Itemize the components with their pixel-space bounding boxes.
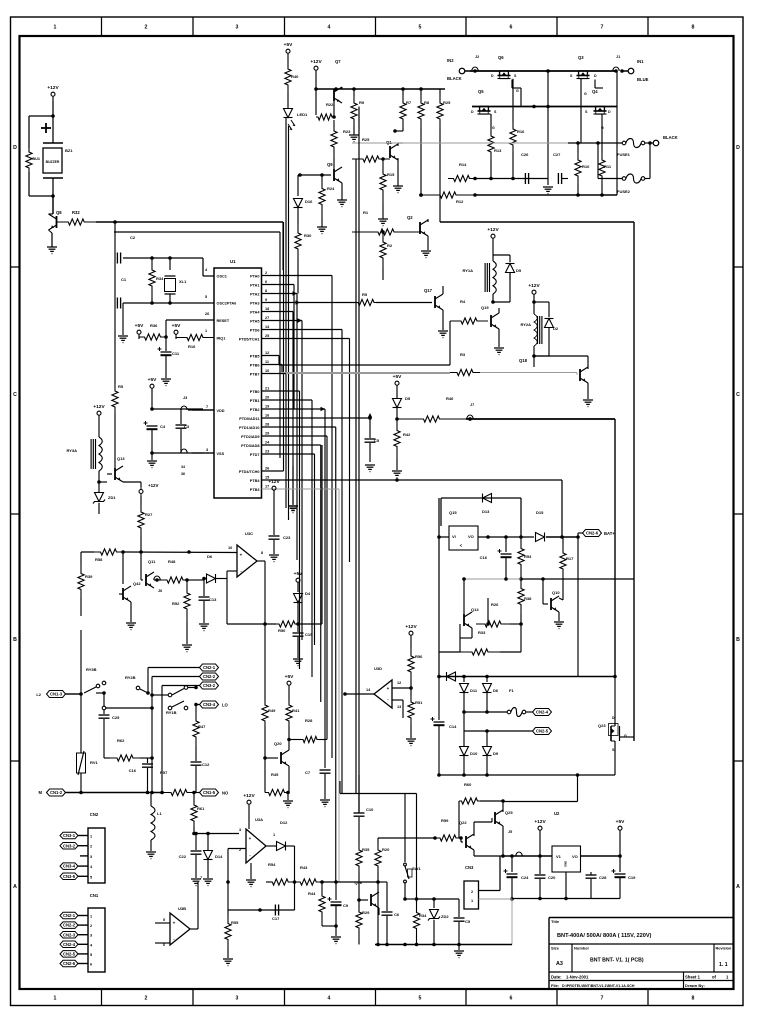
svg-text:D6: D6 xyxy=(493,688,499,693)
svg-text:D11: D11 xyxy=(470,688,478,693)
svg-text:R15: R15 xyxy=(387,172,395,177)
svg-text:2: 2 xyxy=(145,996,148,1002)
svg-text:18: 18 xyxy=(265,307,269,311)
wire reg row xyxy=(439,536,449,538)
ground C13 xyxy=(199,623,209,625)
svg-text:Q5: Q5 xyxy=(478,89,484,94)
svg-text:U3A: U3A xyxy=(255,817,263,822)
ground Q9 e xyxy=(341,183,343,200)
wire +12V rail xyxy=(315,75,317,115)
svg-text:PTA0: PTA0 xyxy=(250,274,259,278)
svg-text:LO: LO xyxy=(222,703,229,708)
wire R60 right xyxy=(503,801,578,803)
fuse row wire xyxy=(568,142,598,144)
svg-text:+5V: +5V xyxy=(148,377,157,383)
svg-text:5: 5 xyxy=(163,918,165,922)
wire y232 top of C2 box xyxy=(114,231,280,233)
svg-text:R34: R34 xyxy=(156,276,164,281)
zone row ticks xyxy=(11,266,20,268)
wire Q11 base xyxy=(141,579,143,581)
svg-text:+12V: +12V xyxy=(310,59,322,65)
svg-text:R14: R14 xyxy=(459,162,467,167)
svg-text:R23: R23 xyxy=(343,129,351,134)
svg-text:23: 23 xyxy=(265,450,269,454)
bus third row xyxy=(475,194,617,196)
svg-text:ZD2: ZD2 xyxy=(441,914,449,919)
ground L1 xyxy=(146,851,156,853)
wire Q13 emitter xyxy=(123,481,141,483)
svg-text:R52: R52 xyxy=(172,601,180,606)
svg-text:L2: L2 xyxy=(36,692,41,697)
svg-text:CN3: CN3 xyxy=(465,865,474,870)
svg-text:3: 3 xyxy=(90,934,92,938)
ground below U1 xyxy=(292,466,294,505)
tag CN2-5 xyxy=(533,728,552,735)
svg-text:Q16: Q16 xyxy=(354,880,362,885)
svg-text:R5: R5 xyxy=(118,384,124,389)
svg-text:3: 3 xyxy=(206,448,208,452)
svg-text:NO: NO xyxy=(222,791,229,796)
svg-text:R3: R3 xyxy=(460,352,466,357)
svg-text:Size: Size xyxy=(551,946,560,951)
svg-text:Q7: Q7 xyxy=(335,59,341,64)
svg-text:C16: C16 xyxy=(480,555,488,560)
svg-text:L1: L1 xyxy=(157,811,162,816)
svg-text:D15: D15 xyxy=(536,510,544,515)
vert x439 xyxy=(438,498,440,677)
bottom rail right xyxy=(512,898,620,900)
wire U2 gnd xyxy=(565,872,567,899)
svg-text:16: 16 xyxy=(265,414,269,418)
terminal BLACK out xyxy=(653,140,659,146)
svg-text:Q23: Q23 xyxy=(598,723,606,728)
wire dark 579 xyxy=(521,578,634,580)
svg-text:8: 8 xyxy=(261,551,263,555)
wire Q8 emitter xyxy=(49,230,53,233)
wire reset xyxy=(165,320,167,337)
wire Q25 coll xyxy=(502,801,504,812)
ground R24 xyxy=(317,226,327,228)
svg-text:5: 5 xyxy=(90,875,92,879)
wire Q10 xyxy=(543,603,548,605)
ground R52top xyxy=(186,622,188,644)
svg-text:G: G xyxy=(516,89,519,93)
svg-text:2: 2 xyxy=(265,271,267,275)
svg-text:2: 2 xyxy=(145,25,148,31)
buzzer BZ1 plus xyxy=(41,127,51,129)
svg-text:B: B xyxy=(736,637,740,643)
wire R59 row xyxy=(378,837,435,838)
long pair verticals xyxy=(355,159,357,794)
svg-text:C13: C13 xyxy=(209,597,217,602)
wire osc step xyxy=(189,257,203,259)
ground R15 xyxy=(378,218,388,220)
svg-text:BAT+: BAT+ xyxy=(604,531,615,536)
svg-text:U2: U2 xyxy=(554,811,560,816)
ground R51 xyxy=(406,738,416,740)
wire buzzer bottom xyxy=(29,195,53,197)
svg-text:R5: R5 xyxy=(362,292,368,297)
svg-text:8: 8 xyxy=(692,996,695,1002)
svg-text:R60: R60 xyxy=(464,782,472,787)
svg-text:CN1-5: CN1-5 xyxy=(203,790,216,795)
svg-text:R1: R1 xyxy=(363,210,369,215)
gray bus PTB3 xyxy=(262,488,340,490)
svg-text:1. 1: 1. 1 xyxy=(719,962,728,968)
svg-text:D4: D4 xyxy=(305,591,311,596)
svg-text:D: D xyxy=(608,110,611,114)
node rail xyxy=(503,855,552,857)
IC U1 body xyxy=(214,268,262,498)
wire VDD row xyxy=(151,393,153,409)
svg-text:+12V: +12V xyxy=(148,483,158,488)
svg-text:R30: R30 xyxy=(304,233,312,238)
svg-text:Drawn By:: Drawn By: xyxy=(685,983,705,988)
wire Q23 source xyxy=(614,752,616,775)
wire R32 to right xyxy=(96,221,283,223)
svg-text:SW1: SW1 xyxy=(412,866,421,871)
svg-text:CN2-1: CN2-1 xyxy=(203,665,216,670)
svg-text:Q19: Q19 xyxy=(481,305,489,310)
ground Q17 xyxy=(442,310,444,330)
svg-text:A: A xyxy=(736,884,740,890)
svg-text:VO: VO xyxy=(468,534,474,539)
svg-text:IRQ1: IRQ1 xyxy=(217,336,226,340)
svg-text:D5: D5 xyxy=(516,268,522,273)
svg-text:R36: R36 xyxy=(150,323,158,328)
wire R49 col xyxy=(264,624,266,700)
svg-text:27: 27 xyxy=(265,316,269,320)
svg-text:1: 1 xyxy=(90,915,92,919)
ground U3A xyxy=(250,863,252,879)
svg-text:CN2-2: CN2-2 xyxy=(203,674,216,679)
CN3 pin2 wire xyxy=(479,890,501,892)
svg-text:R39: R39 xyxy=(85,574,93,579)
svg-text:5: 5 xyxy=(90,953,92,957)
tag CN1-5 xyxy=(200,789,219,796)
tag CN2-2 xyxy=(200,673,219,680)
svg-text:CN2: CN2 xyxy=(90,812,99,817)
wire C26 row xyxy=(475,178,548,180)
svg-text:R17: R17 xyxy=(566,556,574,561)
ground R55 xyxy=(223,958,233,960)
svg-text:R16: R16 xyxy=(188,344,196,349)
gate Q6 to R16 xyxy=(512,79,514,122)
svg-text:R55: R55 xyxy=(231,920,239,925)
svg-text:BLACK: BLACK xyxy=(663,135,678,140)
svg-text:PTA1: PTA1 xyxy=(250,283,259,287)
svg-text:+: + xyxy=(240,553,243,558)
wire bottom box row xyxy=(439,774,615,776)
svg-text:28: 28 xyxy=(265,423,269,427)
svg-text:+: + xyxy=(173,921,176,926)
relay contact RY2B b xyxy=(184,686,188,690)
svg-text:1: 1 xyxy=(54,996,57,1002)
svg-text:Q1: Q1 xyxy=(386,140,392,145)
wire Q42 col xyxy=(122,552,124,584)
svg-text:15: 15 xyxy=(265,476,269,480)
wire +12V stem xyxy=(539,835,541,856)
svg-text:U3B: U3B xyxy=(178,906,186,911)
svg-text:+12V: +12V xyxy=(405,624,417,630)
svg-text:C19: C19 xyxy=(628,875,636,880)
svg-text:7: 7 xyxy=(601,25,604,31)
wire CN2-5 row xyxy=(464,730,530,732)
svg-text:CN3-4: CN3-4 xyxy=(203,702,216,707)
fuse F1 xyxy=(507,710,511,714)
junction row y899 xyxy=(405,898,417,900)
ground Q10 xyxy=(554,621,564,623)
U3A minus wire xyxy=(239,848,246,850)
wire minus in xyxy=(226,571,228,579)
svg-text:BNT-400A/ 500A/ 800A ( 115V,: BNT-400A/ 500A/ 800A ( 115V, 220V) xyxy=(557,933,652,939)
svg-text:3: 3 xyxy=(90,855,92,859)
svg-text:D9: D9 xyxy=(493,751,499,756)
svg-text:CN3-1: CN3-1 xyxy=(63,833,76,838)
svg-text:R62: R62 xyxy=(117,738,125,743)
svg-text:C24: C24 xyxy=(521,875,529,880)
svg-text:R10: R10 xyxy=(582,164,590,169)
ground osc xyxy=(118,335,128,337)
svg-text:J7: J7 xyxy=(470,403,474,407)
ground Q8 xyxy=(47,246,57,248)
svg-text:PTD0/AD11: PTD0/AD11 xyxy=(239,417,259,421)
svg-text:Q25: Q25 xyxy=(505,810,513,815)
svg-text:R12: R12 xyxy=(456,199,464,204)
tag CN3-2 xyxy=(200,682,219,689)
svg-text:IN2: IN2 xyxy=(447,58,454,63)
svg-text:C20: C20 xyxy=(548,875,556,880)
svg-text:CN2-2: CN2-2 xyxy=(63,923,76,928)
svg-text:R44: R44 xyxy=(308,891,316,896)
svg-text:17: 17 xyxy=(265,485,269,489)
svg-text:6: 6 xyxy=(510,996,513,1002)
svg-text:R16: R16 xyxy=(517,129,525,134)
wire y676 row xyxy=(439,676,615,678)
svg-text:C14: C14 xyxy=(449,724,457,729)
svg-text:R2: R2 xyxy=(387,243,393,248)
svg-text:RY1A: RY1A xyxy=(462,268,473,273)
svg-text:+12V: +12V xyxy=(534,819,546,825)
svg-text:10: 10 xyxy=(265,369,269,373)
wire L2 col xyxy=(80,694,82,750)
svg-text:R26: R26 xyxy=(491,602,499,607)
svg-text:R59: R59 xyxy=(441,818,449,823)
svg-text:C16: C16 xyxy=(129,768,137,773)
svg-text:V1: V1 xyxy=(556,854,562,859)
gray row 143 xyxy=(352,142,568,144)
svg-text:CN2-5: CN2-5 xyxy=(63,952,76,957)
svg-text:RY1B: RY1B xyxy=(166,710,177,715)
svg-text:CN2-4: CN2-4 xyxy=(63,942,76,947)
svg-text:CN2-6: CN2-6 xyxy=(63,961,76,966)
U3D input wires xyxy=(392,687,411,689)
svg-text:CN1-3: CN1-3 xyxy=(50,692,63,697)
svg-text:D6: D6 xyxy=(207,554,213,559)
svg-text:+5V: +5V xyxy=(294,571,303,577)
svg-text:J3: J3 xyxy=(183,396,187,400)
wire r43 node xyxy=(322,881,336,883)
svg-text:CN2-4: CN2-4 xyxy=(536,710,549,715)
svg-text:19: 19 xyxy=(265,405,269,409)
svg-text:1: 1 xyxy=(205,329,207,333)
svg-text:C: C xyxy=(13,392,17,398)
ground R9 xyxy=(349,134,359,136)
diode D7 xyxy=(447,672,456,681)
svg-text:+5V: +5V xyxy=(616,819,625,825)
svg-text:R24: R24 xyxy=(327,186,335,191)
svg-text:VDD: VDD xyxy=(217,409,225,413)
wire NO to R61 row xyxy=(194,833,239,835)
svg-text:PTB3: PTB3 xyxy=(250,488,260,492)
svg-text:Date:: Date: xyxy=(551,975,561,980)
wire VSS row xyxy=(152,452,181,454)
svg-text:C2: C2 xyxy=(130,235,136,240)
svg-text:R40: R40 xyxy=(291,74,299,79)
svg-text:A: A xyxy=(13,884,17,890)
svg-text:OSC2PTA6: OSC2PTA6 xyxy=(217,301,237,305)
svg-text:4: 4 xyxy=(328,996,331,1002)
svg-text:+: + xyxy=(249,836,252,841)
svg-text:7: 7 xyxy=(601,996,604,1002)
svg-text:8: 8 xyxy=(265,289,267,293)
svg-text:CN3-2: CN3-2 xyxy=(63,843,76,848)
svg-text:C5: C5 xyxy=(465,919,471,924)
svg-text:D14: D14 xyxy=(215,854,223,859)
svg-text:CN3-5: CN3-5 xyxy=(63,874,76,879)
svg-text:+12V: +12V xyxy=(528,283,540,289)
svg-text:D:\PROTEL\BNT\BNT-V1.1\BNT-V1.: D:\PROTEL\BNT\BNT-V1.1\BNT-V1.1A.SCH xyxy=(562,984,635,988)
bus vertical wires xyxy=(331,276,333,759)
wire left stub xyxy=(439,651,460,653)
wire Q19 coll xyxy=(498,308,500,313)
svg-text:11: 11 xyxy=(265,360,269,364)
svg-text:C: C xyxy=(736,392,740,398)
svg-text:Q6: Q6 xyxy=(498,55,504,60)
svg-text:10: 10 xyxy=(228,546,232,550)
svg-text:D16: D16 xyxy=(305,199,313,204)
svg-text:CN2-1: CN2-1 xyxy=(63,913,76,918)
wire buzzer top xyxy=(52,101,54,116)
svg-text:BLACK: BLACK xyxy=(447,76,462,81)
svg-text:D13: D13 xyxy=(482,509,490,514)
tag CN2-1 xyxy=(200,664,219,671)
regulator U15 box xyxy=(449,526,478,550)
svg-text:R9: R9 xyxy=(359,100,365,105)
svg-text:J2: J2 xyxy=(475,55,479,59)
svg-text:36: 36 xyxy=(181,472,185,476)
svg-text:R32: R32 xyxy=(72,210,80,215)
svg-text:<: < xyxy=(460,543,463,548)
svg-text:9: 9 xyxy=(265,298,267,302)
svg-text:PTB7: PTB7 xyxy=(250,372,260,376)
svg-text:C12: C12 xyxy=(202,762,210,767)
svg-text:FUSE2: FUSE2 xyxy=(617,189,631,194)
svg-text:R49: R49 xyxy=(268,708,276,713)
svg-text:R13: R13 xyxy=(494,148,502,153)
svg-text:RY2A: RY2A xyxy=(520,322,531,327)
svg-text:C22: C22 xyxy=(179,854,187,859)
wire L corner xyxy=(339,781,341,794)
svg-text:C23: C23 xyxy=(283,535,291,540)
feedback wire xyxy=(226,579,228,625)
svg-text:R45: R45 xyxy=(271,772,279,777)
svg-text:PTB5: PTB5 xyxy=(250,354,260,358)
svg-text:FUSE1: FUSE1 xyxy=(617,152,631,157)
svg-text:R43: R43 xyxy=(300,865,308,870)
svg-text:M: M xyxy=(39,790,43,795)
svg-text:29: 29 xyxy=(265,432,269,436)
svg-text:XL1: XL1 xyxy=(179,279,187,284)
svg-text:R25: R25 xyxy=(362,137,370,142)
svg-text:R22: R22 xyxy=(326,102,334,107)
svg-text:CN3-4: CN3-4 xyxy=(63,864,76,869)
svg-text:D: D xyxy=(13,145,17,151)
svg-text:J5: J5 xyxy=(508,830,512,834)
resistor BU1 xyxy=(28,116,30,148)
R7 R8 R25 rail xyxy=(440,88,445,90)
svg-text:R38: R38 xyxy=(524,596,532,601)
CN3 pin1 wire xyxy=(479,898,513,900)
gate Q4 down xyxy=(601,114,603,152)
svg-text:R53: R53 xyxy=(524,554,532,559)
ground C9 xyxy=(335,926,337,936)
svg-text:BUZZER: BUZZER xyxy=(46,160,60,164)
M NO row xyxy=(81,792,164,794)
svg-text:D: D xyxy=(491,74,494,78)
wire C1 gnd xyxy=(122,258,124,303)
wire osc bottom bus xyxy=(123,302,203,304)
svg-text:ZD1: ZD1 xyxy=(108,495,116,500)
svg-text:R50: R50 xyxy=(278,628,286,633)
svg-text:D: D xyxy=(594,74,597,78)
svg-text:Q11: Q11 xyxy=(148,559,156,564)
ground R45 xyxy=(283,800,293,802)
svg-text:CN1: CN1 xyxy=(90,893,99,898)
svg-text:Q8: Q8 xyxy=(56,210,62,215)
svg-text:+12V: +12V xyxy=(243,793,255,799)
svg-text:VO: VO xyxy=(572,854,578,859)
svg-text:PTA3: PTA3 xyxy=(250,301,259,305)
svg-text:Sheet 1: Sheet 1 xyxy=(685,975,701,980)
wire gray r579 xyxy=(464,578,543,580)
wire bat+ node xyxy=(546,536,578,538)
wire D12 down xyxy=(294,846,296,882)
svg-text:PTB2: PTB2 xyxy=(250,408,260,412)
svg-text:of: of xyxy=(712,975,717,980)
svg-text:PTB4: PTB4 xyxy=(250,479,261,483)
svg-text:U1: U1 xyxy=(230,259,236,264)
svg-text:G: G xyxy=(584,92,587,96)
wire entry arrows xyxy=(293,291,298,295)
ground Q19 xyxy=(498,329,500,347)
svg-text:20: 20 xyxy=(265,396,269,400)
svg-text:2: 2 xyxy=(471,890,473,894)
svg-text:BLUE: BLUE xyxy=(637,77,649,82)
gray bus PTB7 xyxy=(262,373,287,375)
svg-text:2: 2 xyxy=(90,924,92,928)
svg-text:13: 13 xyxy=(397,705,401,709)
svg-text:R47: R47 xyxy=(198,724,206,729)
svg-text:File:: File: xyxy=(551,983,559,988)
svg-text:+12V: +12V xyxy=(268,479,280,485)
svg-text:5: 5 xyxy=(205,295,207,299)
ground C22 xyxy=(191,878,201,880)
bus second row xyxy=(472,106,617,108)
svg-text:1: 1 xyxy=(273,833,275,837)
wire R58 row xyxy=(81,551,94,553)
wire R60 left xyxy=(458,801,460,838)
